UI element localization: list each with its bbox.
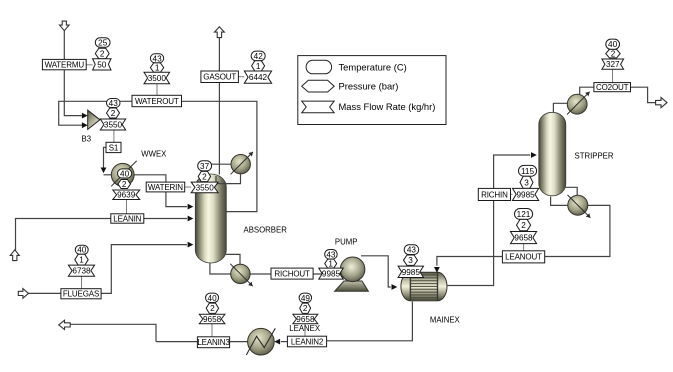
CO2OUT temperature flag 40 [606,39,620,49]
RICHOUT pressure flag 1 [325,259,337,269]
svg-text:LEANIN2: LEANIN2 [291,337,324,346]
feed arrow LEANIN [10,250,19,261]
stream S1 line to WWEX [101,147,112,175]
column STRIPPER [539,112,566,196]
svg-text:9658: 9658 [296,315,315,324]
RICHIN temperature flag 115 [519,165,537,176]
LEANOUT flow flag 9658 [511,232,537,244]
stream LEANIN2 into LEANEX [274,339,287,345]
svg-text:2: 2 [122,180,127,189]
stream label GASOUT [201,71,239,83]
heat exchanger LEANEX [246,328,275,355]
svg-text:121: 121 [517,210,531,219]
svg-text:RICHOUT: RICHOUT [274,270,310,279]
WATEROUT flow flag 3500 [144,72,170,84]
LEANOUT pressure flag 2 [517,219,531,230]
WATERMU temperature flag 25 [95,38,110,48]
flag connector S1 [113,130,115,142]
svg-text:LEANOUT: LEANOUT [505,253,542,262]
LEANIN3 flow flag 9658 [199,314,225,324]
svg-text:9658: 9658 [514,234,533,243]
stream LEANOUT line [434,205,610,272]
stream WATERIN line [134,175,193,210]
svg-text:WATERIN: WATERIN [148,183,183,192]
svg-text:GASOUT: GASOUT [203,73,236,82]
svg-text:B3: B3 [82,135,92,144]
svg-text:42: 42 [254,52,264,61]
svg-text:2: 2 [100,49,105,58]
svg-text:PUMP: PUMP [335,238,358,247]
legend box [298,56,446,125]
stream LEANIN3 line [71,324,248,341]
legend pressure symbol [302,80,335,92]
stripper bottoms piping [551,187,578,205]
svg-text:40: 40 [608,40,618,49]
product arrow LEANIN3 [59,320,70,329]
FLUEGAS temperature flag 40 [75,245,88,255]
svg-text:CO2OUT: CO2OUT [596,83,629,92]
svg-text:3: 3 [524,178,529,187]
RICHOUT temperature flag 43 [325,250,338,260]
svg-text:Mass Flow Rate (kg/hr): Mass Flow Rate (kg/hr) [339,101,436,112]
svg-text:43: 43 [407,246,417,255]
column ABSORBER [195,174,226,263]
feed arrow WATERMU [60,21,70,31]
heat exchanger WWEX [111,161,137,187]
svg-text:3: 3 [408,256,413,265]
flag connector WATERIN [185,186,192,188]
stream FLUEGAS line [29,242,194,294]
LEANIN temperature flag 40 [118,169,132,179]
svg-text:2: 2 [611,50,616,59]
stripper overhead piping [553,87,655,112]
LEANIN3 temperature flag 40 [206,293,219,303]
flag connector LEANIN [126,199,128,214]
svg-text:1: 1 [79,256,84,265]
stripper reboiler [568,195,591,218]
product arrow CO2OUT [656,98,667,108]
svg-text:2: 2 [521,221,526,230]
flag connector LEANIN3 [211,324,213,337]
absorber bottoms cooler [230,264,252,286]
svg-text:STRIPPER: STRIPPER [575,152,614,161]
svg-text:FLUEGAS: FLUEGAS [63,290,99,299]
LEANIN2 temperature flag 49 [299,293,312,303]
MAINEX inlet temperature flag 43 [404,245,419,255]
svg-text:49: 49 [301,294,311,303]
svg-text:3550: 3550 [104,121,123,130]
svg-text:LEANEX: LEANEX [289,324,321,333]
stream GASOUT line [218,38,220,175]
WATEROUT temperature flag 43 [150,54,163,64]
RICHIN flow flag 9985 [513,188,539,200]
WATERIN flow flag 3550 [191,182,218,193]
LEANIN2 flow flag 9658 [293,314,318,324]
pump PUMP [335,257,369,291]
svg-text:WATERMU: WATERMU [45,61,85,70]
svg-text:1: 1 [256,62,261,71]
svg-text:40: 40 [120,169,130,178]
GASOUT flow flag 6442 [244,71,271,83]
stream label CO2OUT [594,83,631,92]
svg-text:2: 2 [202,173,207,182]
svg-text:2: 2 [210,304,215,313]
WATERMU pressure flag 2 [95,48,109,59]
WATEROUT pressure flag 1 [150,63,163,73]
svg-text:9639: 9639 [117,191,136,200]
S1 pressure flag 2 [107,108,120,118]
stream label RICHIN [478,188,510,200]
MAINEX inlet flow flag 9985 [398,266,423,277]
LEANIN flow flag 9639 [113,190,140,200]
flag connector RICHIN [511,193,513,195]
stream RICHIN pump outlet line [361,256,397,290]
stream label S1 [106,142,121,152]
FLUEGAS pressure flag 1 [75,254,88,265]
legend mass flow symbol [302,101,335,113]
flag connector WATEROUT [156,84,158,96]
heat exchanger MAINEX shell [401,272,447,300]
svg-text:9985: 9985 [402,268,421,277]
stream WATERMU line [64,31,87,119]
stream RICHIN riser to stripper [447,152,537,285]
svg-text:WATEROUT: WATEROUT [135,97,179,106]
stream label FLUEGAS [61,289,101,299]
stream WATEROUT from absorber [182,101,257,211]
S1 temperature flag 43 [107,99,121,109]
stream label LEANOUT [502,251,544,263]
svg-text:25: 25 [98,39,108,48]
CO2OUT pressure flag 2 [606,49,620,58]
legend temperature symbol [306,60,332,74]
svg-text:327: 327 [606,60,620,69]
stream label WATERIN [146,182,185,192]
svg-text:43: 43 [109,99,119,108]
absorber overhead cooler piping [210,164,241,183]
svg-text:WWEX: WWEX [141,150,167,159]
absorber overhead cooler [231,152,253,174]
RICHIN pressure flag 3 [520,176,533,188]
WATERIN temperature flag 37 [198,161,212,171]
svg-text:9985: 9985 [516,190,535,199]
stream label LEANIN2 [287,336,326,347]
svg-text:RICHIN: RICHIN [481,190,508,199]
feed arrow FLUEGAS [18,289,28,299]
LEANOUT temperature flag 121 [515,209,533,220]
flag connector GASOUT [238,76,244,78]
MAINEX inlet pressure flag 3 [404,255,418,265]
LEANIN2 pressure flag 2 [300,303,311,313]
WATERMU flow flag 50 [93,59,111,70]
CO2OUT flow flag 327 [602,59,624,69]
svg-text:1: 1 [155,64,160,73]
stream LEANIN2 line from MAINEX [327,302,413,341]
WATERIN pressure flag 2 [198,171,210,181]
svg-text:40: 40 [208,294,218,303]
svg-text:Pressure (bar): Pressure (bar) [339,81,399,92]
svg-text:LEANIN3: LEANIN3 [197,338,230,347]
flag connector LEANOUT [523,244,525,251]
svg-text:9658: 9658 [203,315,222,324]
svg-text:37: 37 [200,162,210,171]
svg-text:LEANIN: LEANIN [113,214,141,223]
svg-text:9985: 9985 [322,270,341,279]
svg-text:Temperature (C): Temperature (C) [339,61,407,72]
stream label RICHOUT [271,268,313,279]
svg-text:2: 2 [111,109,116,118]
svg-text:6738: 6738 [72,267,91,276]
svg-text:43: 43 [153,54,163,63]
absorber bottoms piping [210,254,342,274]
stream WATEROUT recycle to B3 [59,101,132,128]
svg-text:S1: S1 [109,143,119,152]
flag connector CO2OUT [612,69,614,82]
stream label WATERMU [42,59,86,69]
FLUEGAS flow flag 6738 [68,265,94,276]
flag connector LEANIN2 [304,324,306,337]
flag connector FLUEGAS [81,276,83,289]
svg-text:ABSORBER: ABSORBER [244,226,288,235]
svg-text:3550: 3550 [196,183,215,192]
stream label LEANIN3 [197,337,230,348]
LEANIN pressure flag 2 [118,180,131,190]
svg-text:1: 1 [328,260,333,269]
LEANIN3 pressure flag 2 [206,303,218,313]
svg-text:43: 43 [326,250,336,259]
svg-text:6442: 6442 [249,73,268,82]
svg-text:115: 115 [521,167,534,176]
stripper condenser [567,92,590,115]
stream label LEANIN [111,214,144,224]
svg-text:3500: 3500 [148,74,167,83]
S1 flow flag 3550 [100,119,125,130]
stream label WATEROUT [132,95,182,106]
stream LEANIN line [16,216,194,250]
svg-text:50: 50 [97,60,107,69]
svg-text:40: 40 [77,246,87,255]
product arrow GASOUT [215,27,225,38]
svg-text:2: 2 [303,304,308,313]
GASOUT temperature flag 42 [251,51,265,61]
svg-text:MAINEX: MAINEX [430,316,461,325]
RICHOUT flow flag 9985 [319,268,343,279]
GASOUT pressure flag 1 [252,61,265,71]
mixer B3 [88,110,100,129]
flag connector WATERMU [87,64,93,66]
